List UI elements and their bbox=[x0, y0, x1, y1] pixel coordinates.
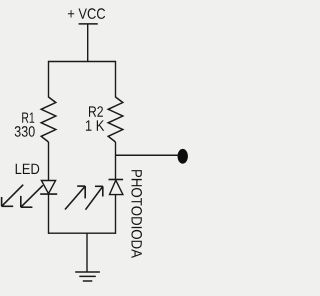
power VCC bar bbox=[79, 23, 98, 25]
wire bottom rail bbox=[49, 232, 116, 234]
label + VCC bbox=[68, 8, 105, 19]
label PHOTODIODA bbox=[131, 170, 142, 258]
wire VCC stub bbox=[87, 24, 89, 62]
ground bbox=[75, 272, 100, 281]
LED light arrow 1 bbox=[2, 185, 24, 207]
label 330 bbox=[15, 126, 35, 137]
photodiode light arrow 2 bbox=[86, 186, 103, 209]
wire right bottom bbox=[115, 195, 117, 234]
photodiode cathode bar bbox=[109, 179, 124, 181]
wire to output node bbox=[116, 154, 178, 156]
resistor R2 bbox=[108, 97, 123, 142]
LED light arrow 2 bbox=[21, 185, 43, 207]
wire right branch top bbox=[115, 61, 117, 98]
wire top rail bbox=[49, 61, 116, 63]
photodiode D2 triangle bbox=[110, 180, 123, 194]
wire left bottom bbox=[48, 194, 50, 234]
label 1 K bbox=[86, 120, 104, 130]
node output dot bbox=[178, 149, 188, 164]
photodiode light arrow 1 bbox=[65, 186, 85, 209]
resistor R1 bbox=[41, 97, 56, 142]
label LED bbox=[16, 164, 40, 174]
wire right mid bbox=[115, 142, 117, 180]
wire left branch top bbox=[48, 61, 50, 98]
LED D1 triangle bbox=[41, 181, 55, 194]
label R1 bbox=[22, 113, 34, 123]
LED cathode bar bbox=[40, 193, 57, 195]
wire ground stub bbox=[86, 233, 88, 272]
wire left mid bbox=[48, 142, 50, 181]
label R2 bbox=[89, 106, 103, 117]
